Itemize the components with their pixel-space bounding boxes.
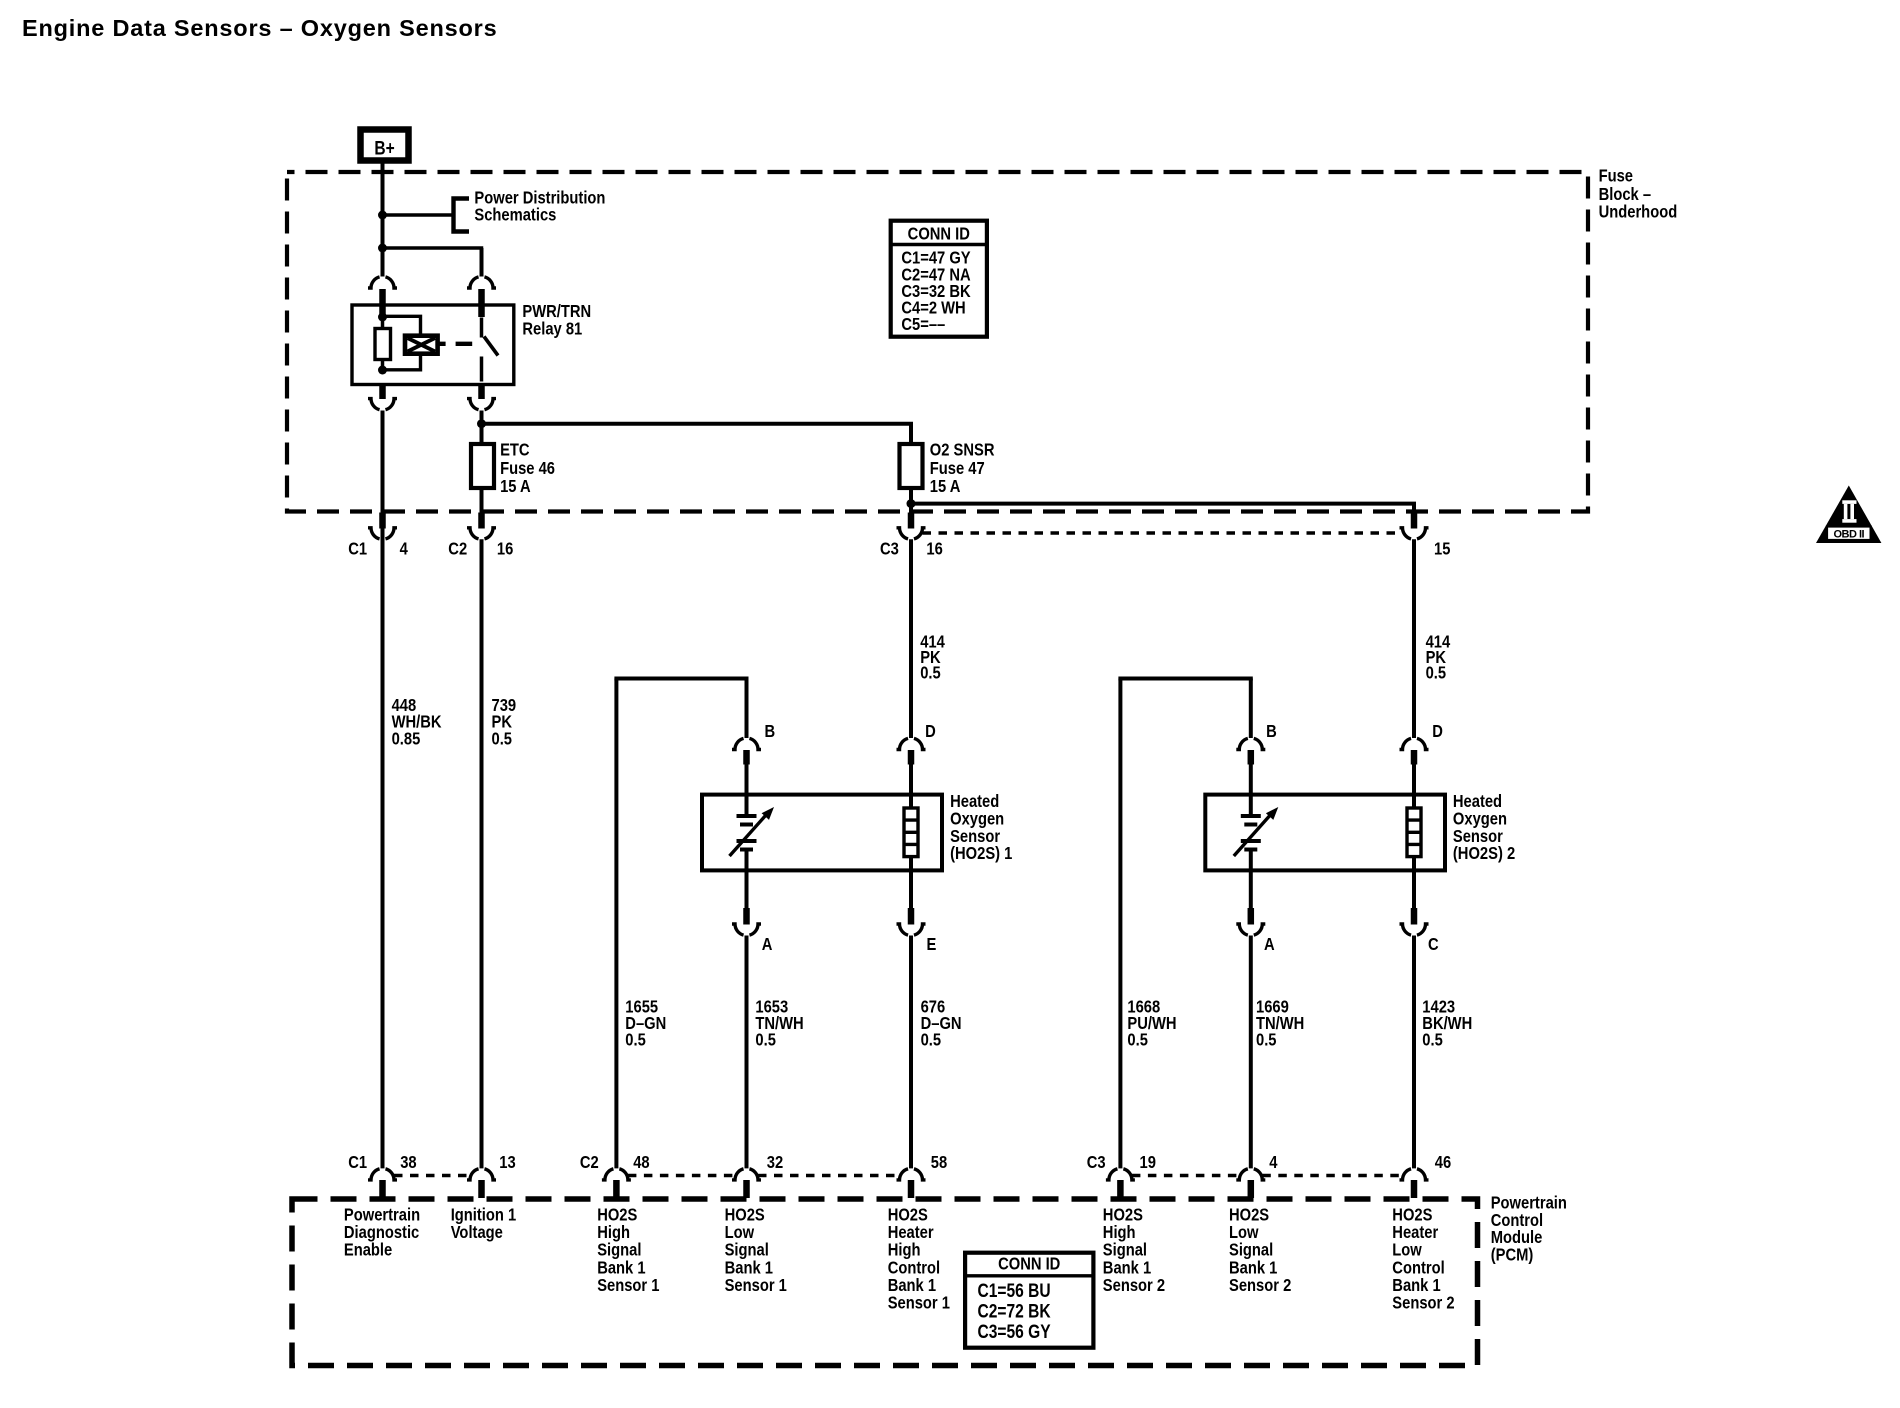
svg-text:(HO2S) 1: (HO2S) 1	[950, 844, 1012, 864]
svg-text:48: 48	[633, 1153, 649, 1173]
svg-text:Sensor 2: Sensor 2	[1103, 1276, 1165, 1296]
svg-text:16: 16	[497, 539, 513, 559]
svg-text:Fuse: Fuse	[1599, 166, 1633, 186]
svg-text:0.85: 0.85	[392, 729, 421, 749]
svg-text:C1: C1	[348, 1153, 367, 1173]
svg-text:C1: C1	[348, 539, 367, 559]
svg-text:A: A	[762, 935, 773, 955]
svg-text:Sensor 2: Sensor 2	[1229, 1276, 1291, 1296]
svg-text:16: 16	[926, 539, 942, 559]
svg-text:0.5: 0.5	[921, 1030, 941, 1050]
svg-text:(HO2S) 2: (HO2S) 2	[1453, 844, 1515, 864]
svg-text:0.5: 0.5	[755, 1030, 775, 1050]
svg-text:15 A: 15 A	[930, 477, 961, 497]
svg-text:Enable: Enable	[344, 1240, 392, 1260]
svg-text:(PCM): (PCM)	[1491, 1245, 1534, 1265]
svg-text:32: 32	[767, 1153, 783, 1173]
svg-text:C3: C3	[1087, 1153, 1106, 1173]
svg-text:Sensor 1: Sensor 1	[888, 1293, 950, 1313]
svg-text:Schematics: Schematics	[474, 205, 556, 225]
svg-text:B: B	[765, 721, 776, 741]
svg-text:ETC: ETC	[500, 440, 530, 460]
svg-text:C2: C2	[580, 1153, 599, 1173]
svg-text:0.5: 0.5	[1127, 1030, 1147, 1050]
svg-text:Fuse 47: Fuse 47	[930, 459, 985, 479]
svg-text:Sensor 1: Sensor 1	[725, 1276, 787, 1296]
svg-text:C2: C2	[448, 539, 467, 559]
svg-text:Engine Data Sensors – Oxygen S: Engine Data Sensors – Oxygen Sensors	[22, 15, 497, 41]
svg-text:E: E	[927, 935, 937, 955]
svg-text:C5=––: C5=––	[901, 315, 945, 335]
svg-text:Relay 81: Relay 81	[522, 319, 582, 339]
svg-text:46: 46	[1435, 1153, 1451, 1173]
svg-text:C2=72 BK: C2=72 BK	[978, 1300, 1052, 1322]
svg-text:D: D	[1432, 721, 1443, 741]
svg-text:0.5: 0.5	[1256, 1030, 1276, 1050]
svg-text:Sensor 1: Sensor 1	[597, 1276, 659, 1296]
svg-text:C3: C3	[880, 539, 899, 559]
svg-text:0.5: 0.5	[1422, 1030, 1442, 1050]
svg-text:B+: B+	[374, 137, 394, 159]
svg-text:O2 SNSR: O2 SNSR	[930, 440, 995, 460]
svg-text:4: 4	[1269, 1153, 1278, 1173]
svg-text:A: A	[1264, 935, 1275, 955]
svg-text:OBD II: OBD II	[1833, 528, 1864, 540]
svg-text:Sensor 2: Sensor 2	[1392, 1293, 1454, 1313]
svg-text:B: B	[1266, 721, 1277, 741]
svg-text:Voltage: Voltage	[451, 1223, 503, 1243]
svg-text:0.5: 0.5	[920, 663, 940, 683]
svg-text:CONN ID: CONN ID	[998, 1254, 1060, 1274]
svg-text:4: 4	[400, 539, 409, 559]
svg-text:0.5: 0.5	[625, 1030, 645, 1050]
svg-text:C: C	[1428, 935, 1439, 955]
svg-text:15: 15	[1434, 539, 1450, 559]
svg-text:0.5: 0.5	[492, 729, 512, 749]
svg-text:58: 58	[931, 1153, 947, 1173]
svg-text:D: D	[925, 721, 936, 741]
svg-text:19: 19	[1140, 1153, 1156, 1173]
svg-text:CONN ID: CONN ID	[908, 224, 970, 244]
svg-text:Fuse 46: Fuse 46	[500, 459, 555, 479]
svg-text:15 A: 15 A	[500, 477, 531, 497]
svg-text:C3=56 GY: C3=56 GY	[978, 1321, 1051, 1343]
svg-text:38: 38	[400, 1153, 416, 1173]
svg-text:0.5: 0.5	[1426, 663, 1446, 683]
svg-text:Underhood: Underhood	[1599, 202, 1678, 222]
svg-text:C1=56 BU: C1=56 BU	[978, 1280, 1051, 1302]
svg-text:13: 13	[499, 1153, 515, 1173]
